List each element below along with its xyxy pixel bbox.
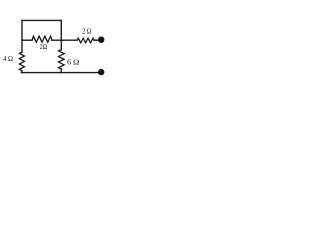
svg-text:2 Ω: 2 Ω <box>82 27 92 36</box>
wire left lower <box>21 71 23 73</box>
wire to terminal a <box>94 39 98 41</box>
wire 6ohm bottom stem <box>60 69 62 73</box>
resistor R2 2ohm <box>32 36 52 42</box>
wire top <box>22 19 61 21</box>
terminal a dot <box>98 37 104 43</box>
wire right upper <box>60 20 62 40</box>
wire middle center <box>52 39 77 41</box>
wire left upper <box>21 20 23 52</box>
wire middle left stem <box>22 39 32 41</box>
svg-text:6 Ω: 6 Ω <box>67 57 80 66</box>
resistor R1 4ohm <box>19 52 24 71</box>
resistor R3 2ohm <box>77 38 94 43</box>
svg-text:2Ω: 2Ω <box>40 42 48 51</box>
svg-text:4 Ω: 4 Ω <box>3 54 13 63</box>
resistor R4 6ohm <box>59 50 65 70</box>
terminal b dot <box>98 69 104 75</box>
wire bottom <box>21 72 98 74</box>
wire 6ohm top stem <box>60 40 62 49</box>
